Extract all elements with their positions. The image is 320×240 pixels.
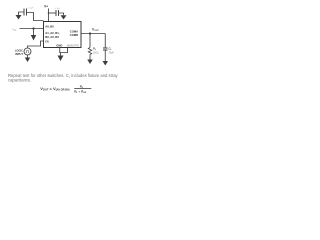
node junction dot VIN — [32, 27, 34, 29]
svg-text:RL: RL — [93, 47, 97, 52]
wire — [104, 34, 107, 49]
ground arrow CL — [103, 61, 109, 66]
wire EN — [28, 41, 44, 48]
svg-text:capacitance.: capacitance. — [8, 78, 32, 83]
svg-text:B2, A3, B3: B2, A3, B3 — [45, 35, 59, 39]
wire — [27, 13, 44, 21]
svg-text:A0, B0: A0, B0 — [45, 24, 54, 28]
wire VOUT — [81, 32, 105, 35]
wire — [88, 34, 91, 48]
svg-text:V+: V+ — [44, 4, 48, 8]
resistor RL — [88, 48, 92, 57]
svg-text:GND: GND — [56, 44, 62, 48]
wire VIN — [20, 27, 44, 30]
formula fraction bar — [74, 87, 91, 90]
wire — [59, 13, 64, 15]
svg-text:0.1µF: 0.1µF — [28, 7, 34, 9]
wire — [47, 9, 50, 22]
IC U1 box — [44, 22, 82, 48]
ground arrow box GND — [58, 56, 64, 62]
svg-text:COMB: COMB — [70, 33, 78, 37]
svg-text:VOUT = V(A0 OR B0): VOUT = V(A0 OR B0) — [40, 86, 69, 92]
ground arrow VIN — [31, 35, 37, 41]
wire — [104, 50, 107, 61]
svg-text:0.1µF: 0.1µF — [55, 8, 61, 10]
svg-text:A1, A2, B1,: A1, A2, B1, — [45, 31, 60, 35]
svg-text:VOUT: VOUT — [92, 28, 99, 33]
svg-text:CL: CL — [109, 47, 113, 52]
capacitor C2 — [56, 10, 59, 16]
logic input source V1 — [24, 48, 31, 55]
wire GND pins — [59, 48, 68, 56]
wire — [88, 56, 91, 60]
node junction dot VOUT — [89, 32, 91, 34]
node junction dot V+ branch — [48, 12, 50, 14]
svg-text:LOGIC: LOGIC — [15, 49, 23, 53]
capacitor CL — [103, 48, 108, 50]
ground arrow RL — [87, 60, 93, 65]
ground arrow logic input — [25, 58, 31, 63]
svg-text:35pF: 35pF — [109, 52, 115, 55]
svg-text:300Ω: 300Ω — [93, 52, 99, 55]
wire — [49, 11, 56, 14]
svg-text:COMA: COMA — [70, 30, 78, 34]
wire — [32, 29, 35, 36]
wire — [26, 55, 29, 58]
ground arrow left cap — [16, 15, 22, 20]
ground arrow V+ cap — [61, 15, 67, 19]
svg-text:MAX14778: MAX14778 — [67, 45, 79, 48]
capacitor C1 — [24, 9, 27, 16]
svg-text:RL + RON: RL + RON — [74, 90, 87, 95]
svg-text:VIN: VIN — [13, 27, 17, 32]
ground — [19, 12, 24, 15]
svg-text:EN: EN — [45, 41, 49, 44]
